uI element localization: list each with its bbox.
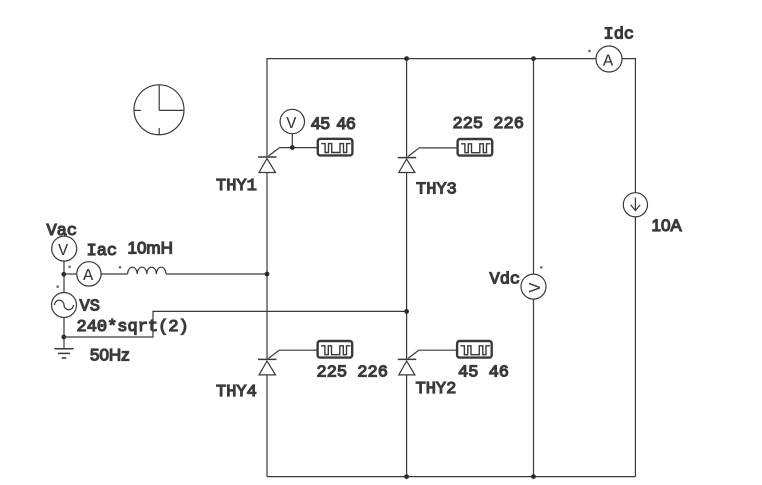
thyristor THY4 bbox=[258, 350, 279, 375]
node source junction bottom bbox=[61, 335, 66, 340]
voltmeter Vdc bbox=[521, 274, 546, 299]
svg-text:225 226: 225 226 bbox=[453, 115, 524, 134]
svg-text:Iac: Iac bbox=[87, 242, 118, 261]
svg-text:10mH: 10mH bbox=[128, 239, 173, 258]
node top bus / right leg bbox=[404, 56, 409, 61]
node THY1 gate bbox=[290, 145, 295, 150]
wire Vac stem bbox=[63, 261, 65, 274]
inductor L 10mH bbox=[128, 267, 166, 274]
node bridge right mid bbox=[404, 309, 409, 314]
svg-text:A: A bbox=[603, 53, 614, 72]
wire bottom bus bbox=[267, 476, 635, 478]
polarity dot Idc bbox=[588, 50, 591, 53]
polarity dot ammeter Iac bbox=[68, 265, 71, 268]
node top bus / Vdc branch bbox=[531, 56, 536, 61]
wire THY4 gate bbox=[279, 349, 317, 351]
thyristor THY2 bbox=[398, 350, 419, 375]
source VS sine bbox=[52, 293, 77, 318]
wire THY3 gate bbox=[419, 147, 458, 149]
wire Vdc branch top bbox=[533, 59, 535, 275]
svg-text:240*sqrt(2): 240*sqrt(2) bbox=[77, 318, 189, 337]
svg-text:10A: 10A bbox=[652, 216, 683, 235]
svg-text:THY2: THY2 bbox=[416, 380, 457, 399]
svg-text:Idc: Idc bbox=[604, 26, 635, 45]
svg-text:45 46: 45 46 bbox=[458, 364, 509, 383]
wire right leg bottom (THY2 anode to bottom bus) bbox=[406, 375, 408, 477]
node bottom bus / right leg bbox=[404, 474, 409, 479]
gating block G1 bbox=[318, 139, 353, 156]
current source IDC bbox=[623, 193, 647, 217]
svg-text:V: V bbox=[286, 115, 297, 134]
node bottom bus / Vdc branch bbox=[531, 474, 536, 479]
svg-text:V: V bbox=[527, 282, 546, 293]
svg-text:THY1: THY1 bbox=[216, 177, 257, 196]
svg-text:225 226: 225 226 bbox=[317, 364, 388, 383]
wire THY1 gate bbox=[279, 147, 317, 149]
node bridge left mid bbox=[265, 272, 270, 277]
polarity dot Vdc bbox=[540, 266, 543, 269]
svg-text:45 46: 45 46 bbox=[311, 114, 356, 133]
polarity dot source VS bbox=[56, 285, 59, 288]
ammeter Idc bbox=[596, 46, 622, 72]
svg-text:THY4: THY4 bbox=[216, 383, 257, 402]
wire source to bridge mid node bbox=[64, 311, 407, 337]
wire right leg top (top bus to THY3) bbox=[406, 59, 408, 158]
ammeter Iac bbox=[77, 262, 101, 286]
wire VS to bottom junction bbox=[63, 318, 65, 338]
wire V1 stem bbox=[291, 134, 293, 148]
wire Idc to right branch bbox=[622, 59, 635, 193]
voltmeter V1 bbox=[280, 109, 304, 134]
gating block G3 bbox=[458, 139, 493, 156]
wire ammeter to inductor bbox=[101, 273, 128, 275]
wire junction to ammeter bbox=[64, 273, 77, 275]
svg-text:VS: VS bbox=[80, 298, 100, 317]
svg-text:Vac: Vac bbox=[47, 222, 78, 241]
wire Vdc branch bottom bbox=[533, 299, 535, 477]
wire left leg bottom (THY4 anode to bottom bus) bbox=[266, 375, 268, 477]
wire left leg middle (THY1 anode to THY4 cathode) bbox=[266, 173, 268, 360]
wire inductor to bridge bbox=[166, 273, 267, 275]
svg-text:50Hz: 50Hz bbox=[90, 346, 130, 365]
gating block G4 bbox=[318, 341, 353, 358]
wire junction to VS bbox=[63, 274, 65, 292]
svg-text:V: V bbox=[58, 242, 69, 261]
gating block G2 bbox=[457, 341, 492, 358]
node source junction top bbox=[61, 272, 66, 277]
wire top bus bbox=[267, 59, 596, 157]
voltmeter Vac bbox=[52, 236, 77, 261]
ground bbox=[54, 337, 73, 358]
svg-text:A: A bbox=[83, 267, 94, 286]
wire THY2 gate bbox=[419, 349, 457, 351]
thyristor THY1 bbox=[258, 148, 279, 173]
svg-text:Vdc: Vdc bbox=[490, 271, 521, 290]
thyristor THY3 bbox=[398, 148, 419, 172]
wire right leg middle (THY3 anode to THY2 cathode) bbox=[406, 173, 408, 360]
clock symbol bbox=[134, 85, 184, 135]
wire right branch lower bbox=[634, 217, 636, 477]
polarity dot inductor bbox=[119, 266, 122, 269]
svg-text:THY3: THY3 bbox=[416, 181, 457, 200]
